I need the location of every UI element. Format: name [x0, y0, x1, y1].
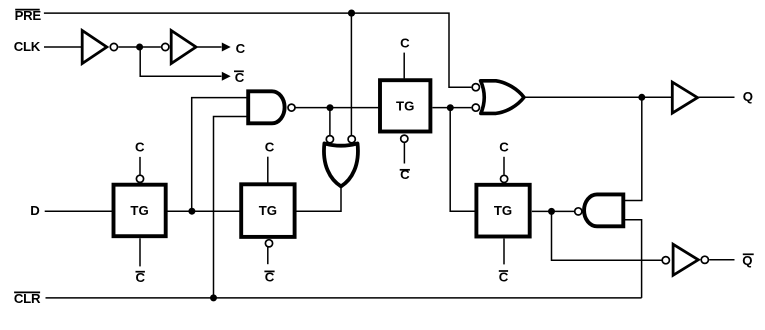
svg-text:C: C [265, 140, 275, 155]
svg-text:TG: TG [396, 98, 414, 113]
svg-text:CLK: CLK [14, 39, 41, 54]
svg-text:C: C [135, 140, 145, 155]
svg-text:Q: Q [743, 89, 753, 104]
svg-text:TG: TG [494, 203, 512, 218]
svg-text:TG: TG [130, 203, 148, 218]
svg-text:C: C [400, 36, 410, 51]
svg-text:D: D [30, 203, 40, 218]
svg-text:C: C [236, 41, 246, 56]
svg-text:PRE: PRE [15, 8, 42, 23]
svg-text:TG: TG [259, 203, 277, 218]
svg-text:C: C [235, 70, 245, 85]
svg-text:C: C [499, 140, 509, 155]
svg-text:C: C [499, 270, 509, 285]
